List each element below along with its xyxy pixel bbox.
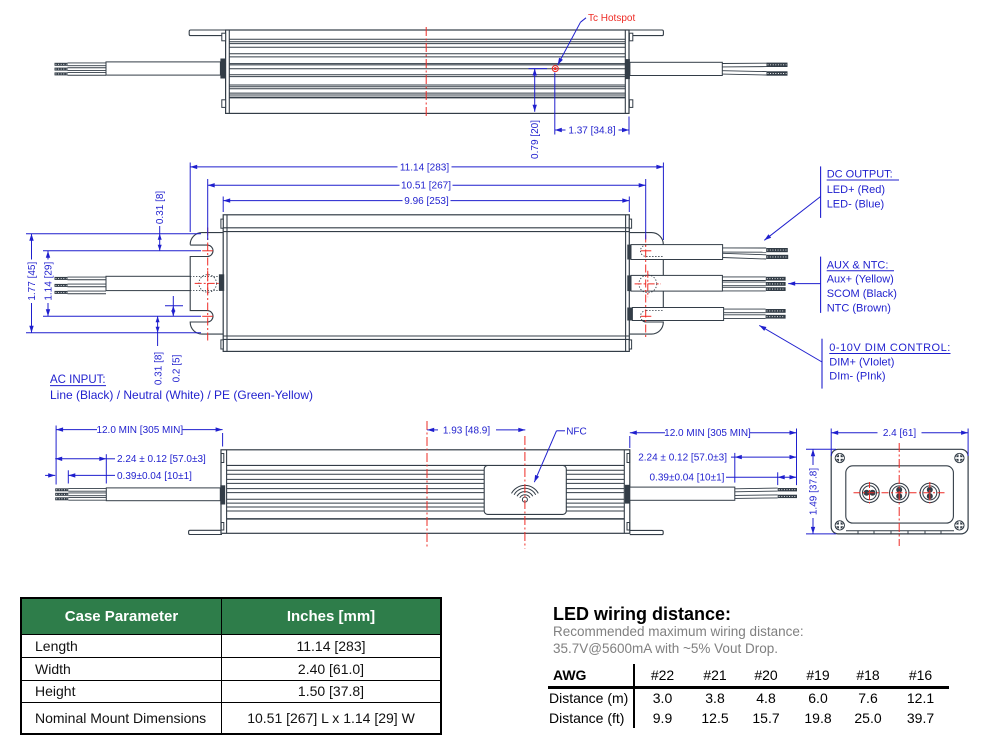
dimension 2.24 +- 0.12 [57.0+-3] left bbox=[105, 454, 107, 483]
end view: bottom rail line bbox=[846, 530, 954, 532]
Tc hotspot leader line bbox=[558, 22, 581, 65]
svg-text:1.77 [45]: 1.77 [45] bbox=[27, 262, 38, 301]
DIM CONTROL leader arrow bbox=[759, 325, 822, 362]
top view: corner boss top-right bbox=[629, 33, 632, 41]
front view: right red slot centerline bbox=[645, 235, 647, 339]
bottom view: NFC wifi icon arcs bbox=[520, 495, 530, 498]
bottom view: NFC zone plate bbox=[484, 466, 566, 515]
front view: AC wire tips bbox=[55, 277, 68, 280]
front view: AC cable jacket bbox=[106, 276, 190, 290]
end view: corner screws bbox=[835, 454, 844, 463]
dimension 1.14 [29] bbox=[43, 250, 201, 252]
top view: DC cable jacket right bbox=[630, 62, 722, 75]
dimension 1.77 [45] bbox=[26, 233, 201, 235]
bottom view: AC cable jacket bbox=[106, 488, 220, 501]
front view: AC cable hidden jacket lines through bracket bbox=[190, 275, 222, 277]
dimension 0.39+-0.04 [10+-1] right bbox=[777, 472, 779, 485]
top view: DC cable strain relief block bbox=[625, 59, 630, 79]
dimension 1.93 [48.9] bbox=[427, 429, 438, 431]
end view: inner face plate bbox=[846, 466, 954, 523]
Tc hotspot marker circle bbox=[552, 66, 558, 72]
svg-text:0.39±0.04 [10±1]: 0.39±0.04 [10±1] bbox=[117, 471, 192, 482]
front view: left red slot centerline bbox=[207, 228, 209, 342]
bottom view: case body outline bbox=[221, 450, 630, 534]
front view: case body bbox=[223, 215, 629, 352]
top view: AC input wires (3) bbox=[68, 65, 107, 67]
top view: red center line bbox=[425, 27, 427, 117]
svg-text:0.2 [5]: 0.2 [5] bbox=[172, 354, 183, 382]
bottom view: mounting tab left bbox=[189, 530, 222, 534]
top view: heatsink fin lines bbox=[229, 38, 625, 40]
top view: corner boss top-left bbox=[222, 33, 226, 41]
bottom view: base band line bbox=[227, 464, 625, 466]
bottom view: case end edge lines bbox=[226, 450, 228, 534]
svg-text:2.24 ± 0.12 [57.0±3]: 2.24 ± 0.12 [57.0±3] bbox=[117, 454, 206, 465]
dimension 0.31 [8] lower bbox=[157, 316, 159, 346]
bottom view: NFC wifi icon dot bbox=[522, 497, 527, 502]
dimension 12.0 MIN [305 MIN] left bbox=[55, 426, 57, 485]
dimension 2.4 [61] bbox=[830, 429, 832, 457]
end view: cable gland middle bbox=[890, 483, 909, 502]
dimension 0.79 [20] line bbox=[534, 69, 536, 112]
AUX & NTC leader arrow bbox=[788, 283, 820, 285]
svg-text:9.96 [253]: 9.96 [253] bbox=[404, 196, 449, 207]
dimension 1.37 [34.8] extension lines bbox=[554, 73, 556, 135]
svg-text:0.31 [8]: 0.31 [8] bbox=[154, 352, 165, 386]
top view: case body outline bbox=[226, 30, 629, 113]
front view: DC output cable (top right) bbox=[627, 245, 632, 260]
front view: hidden slot arcs over right cables bbox=[641, 245, 647, 256]
dimension 12.0 MIN [305 MIN] right bbox=[796, 429, 798, 486]
front view: end cap lines bbox=[223, 227, 629, 229]
svg-text:12.0 MIN [305 MIN]: 12.0 MIN [305 MIN] bbox=[96, 425, 183, 436]
top view: mounting tab right bbox=[629, 30, 663, 36]
bottom view: AC wire tips bbox=[55, 488, 68, 491]
dimension 11.14 [283] bbox=[189, 163, 191, 233]
bottom view: red centerline 1 bbox=[426, 421, 428, 548]
top view: AC wire stripped tips bbox=[55, 63, 68, 66]
top view: DC wire stripped tips bbox=[767, 63, 788, 67]
svg-text:1.93 [48.9]: 1.93 [48.9] bbox=[443, 425, 490, 436]
front view: red slot center ticks bbox=[202, 250, 213, 252]
dimension 0.39+-0.04 [10+-1] left bbox=[67, 470, 69, 483]
front view: right mounting bracket with keyhole slots bbox=[629, 233, 663, 335]
bottom view: AC strain relief bbox=[220, 485, 225, 504]
top view: mounting tab left bbox=[189, 30, 225, 36]
top view: corner boss bottom-left bbox=[222, 100, 226, 108]
front view: AUX cable (middle right) bbox=[627, 275, 632, 291]
end view: cable gland left bbox=[860, 483, 879, 502]
top view: AC cable strain relief block bbox=[220, 59, 225, 79]
dimension 0.79 [20] tick bbox=[529, 68, 548, 70]
bottom view: DC cable jacket bbox=[630, 487, 735, 500]
front view: DC gland hidden circle right bbox=[639, 275, 657, 293]
dimension 9.96 [253] bbox=[222, 197, 224, 213]
bottom view: mounting tab right bbox=[630, 530, 663, 534]
AUX & NTC label block bbox=[820, 257, 822, 313]
top view: corner boss bottom-right bbox=[629, 100, 632, 108]
DC OUTPUT label block bbox=[820, 166, 822, 218]
front view: AC cable gland hidden circle bbox=[199, 275, 217, 293]
end view: cable gland right bbox=[920, 483, 939, 502]
svg-text:10.51 [267]: 10.51 [267] bbox=[401, 181, 451, 192]
0-10V DIM CONTROL label block bbox=[821, 339, 823, 389]
front view: case inner edge lines bbox=[226, 215, 228, 352]
bottom view: AC wires (3) bbox=[68, 490, 106, 492]
end view: red vertical centerline bbox=[898, 443, 900, 546]
dimension 0.31 [8] upper bbox=[159, 226, 161, 251]
svg-text:Line (Black) / Neutral (White): Line (Black) / Neutral (White) / PE (Gre… bbox=[50, 388, 313, 402]
front view: AC strain relief block bbox=[219, 274, 224, 291]
svg-text:0.31 [8]: 0.31 [8] bbox=[155, 191, 166, 225]
dimension 2.24 +- 0.12 [57.0+-3] right bbox=[734, 453, 736, 483]
bottom view: corner bosses bbox=[221, 454, 224, 463]
front view: right red slot ticks bbox=[641, 250, 652, 252]
top view: DC output wires (2) bbox=[722, 66, 766, 68]
svg-text:1.14 [29]: 1.14 [29] bbox=[44, 262, 55, 301]
svg-text:AC INPUT:: AC INPUT: bbox=[50, 374, 106, 386]
case parameter table bbox=[20, 597, 442, 735]
front view: AC wires (3) bbox=[68, 279, 107, 281]
bottom view: heatsink fin lines bbox=[227, 469, 625, 471]
front view: DIM cable (bottom right) bbox=[627, 308, 632, 321]
dimension 1.37 [34.8] line bbox=[555, 129, 566, 131]
front view: corner bosses bbox=[221, 219, 223, 228]
front view: AC gland red crosshair bbox=[195, 282, 221, 284]
svg-text:0.79 [20]: 0.79 [20] bbox=[530, 120, 541, 159]
dimension 1.49 [37.8] bbox=[806, 448, 836, 450]
dimension 10.51 [267] bbox=[207, 179, 209, 240]
LED wiring distance block bbox=[548, 0, 988, 745]
end view: outer case bbox=[831, 449, 968, 534]
DC OUTPUT leader arrow bbox=[764, 197, 820, 241]
front view: left mounting bracket with keyhole slots bbox=[190, 233, 223, 335]
end view: red gland crosshairs bbox=[854, 492, 946, 494]
dimension 0.2 [5] bbox=[165, 305, 183, 307]
bottom view: red centerline 2 (NFC) bbox=[524, 436, 526, 549]
svg-text:11.14 [283]: 11.14 [283] bbox=[400, 162, 450, 173]
top view: case end edge lines bbox=[228, 30, 230, 113]
bottom view: DC wire tips bbox=[778, 488, 797, 491]
top view: AC cable jacket left bbox=[106, 62, 220, 75]
bottom view: DC wires (2) bbox=[735, 490, 778, 493]
bottom view: DC strain relief bbox=[625, 485, 630, 504]
